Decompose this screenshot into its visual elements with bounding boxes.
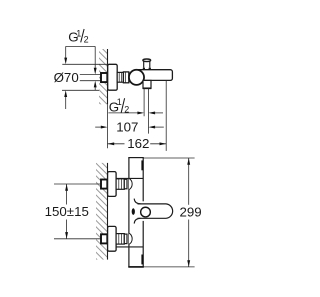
temperature stop mark (dark) <box>132 208 135 215</box>
lower connection nut (front view) <box>116 234 124 245</box>
299 bottom extension line <box>144 266 195 268</box>
inlet pipe edge extension lines <box>80 74 101 76</box>
thermostat handle (circle, side view) <box>129 70 144 85</box>
redraw boss arcs over body edge <box>129 178 132 189</box>
body bottom edge <box>128 266 144 268</box>
lower collar (front view) <box>124 234 127 244</box>
body right edge lower <box>142 221 144 267</box>
lever S-curve top <box>134 199 140 204</box>
leader line under middle G1/2 with arrow to pipe <box>108 112 138 114</box>
svg-text:150±15: 150±15 <box>45 204 89 219</box>
dark accent bottom cap <box>141 255 143 265</box>
wall hatching (front view) <box>96 163 108 260</box>
svg-text:299: 299 <box>180 204 202 219</box>
svg-text:107: 107 <box>116 119 138 134</box>
leader line connecting G1/2 label to pipe dimension <box>66 45 96 47</box>
lever S-curve bottom <box>134 218 140 223</box>
top port neck (shower outlet, side view) <box>143 61 145 68</box>
Ø70 extension line bottom (escutcheon bottom) <box>62 89 99 91</box>
dimension 162 (wall to body front) <box>108 143 125 145</box>
top cap separation line <box>116 177 143 179</box>
escutcheon disc (side view) <box>108 64 118 90</box>
extension line from bottom port right edge <box>147 89 149 134</box>
right arrow of middle G1/2 dimension <box>148 111 155 114</box>
lower escutcheon (front view) <box>108 226 117 251</box>
body right edge upper <box>142 158 144 202</box>
connection nut (side view) <box>117 72 123 82</box>
150 extension line lower <box>54 238 101 240</box>
299 top extension line <box>144 157 195 159</box>
extension line from bottom port left edge <box>143 89 145 117</box>
wall face line (top view), continues down as extension line for 107/162 <box>107 49 109 104</box>
150 extension line upper (to union centre) <box>54 183 101 185</box>
top port foot flanges <box>143 68 145 70</box>
upper escutcheon (front view) <box>108 172 117 197</box>
body top edge <box>128 157 144 159</box>
upper wall union (dark square) <box>101 180 107 189</box>
svg-text:2: 2 <box>84 34 89 44</box>
svg-text:162: 162 <box>127 136 149 151</box>
extension line from body front (162 right) <box>165 80 167 150</box>
lower wall union (dark square) <box>101 234 107 243</box>
faucet body (side view) <box>137 70 173 81</box>
bottom cap separation line <box>116 246 143 248</box>
dimension 150±15 <box>66 184 68 205</box>
top port rim ellipse <box>143 59 151 62</box>
faucet body (front view) <box>116 158 144 268</box>
G1/2 pipe dimension line with arrows (at x=95.2) <box>94 46 96 68</box>
dark accent top cap <box>141 160 143 170</box>
collar ring (side view) <box>123 72 128 83</box>
upper collar (front view) <box>124 179 127 189</box>
dimension Ø70: vertical dimension line at x=65.7 <box>65 46 67 58</box>
lever pivot circle <box>141 207 151 217</box>
dimension 107 (wall to outlet centre) <box>101 126 108 129</box>
svg-text:1: 1 <box>117 97 122 107</box>
svg-text:1: 1 <box>76 29 81 39</box>
wall union fitting (dark square in wall) <box>101 73 107 82</box>
upper connection nut (front view) <box>116 179 124 190</box>
body left edge <box>128 158 130 268</box>
299 dimension line <box>188 158 190 205</box>
lever handle (pill shape, front view) <box>138 204 173 218</box>
wall face line (front view) <box>107 163 109 260</box>
wall hatching (top view) <box>99 49 108 104</box>
Ø70 extension line top (escutcheon top) <box>62 63 107 65</box>
svg-text:Ø70: Ø70 <box>54 70 79 85</box>
bottom port (bath outlet, side view) <box>143 80 151 88</box>
